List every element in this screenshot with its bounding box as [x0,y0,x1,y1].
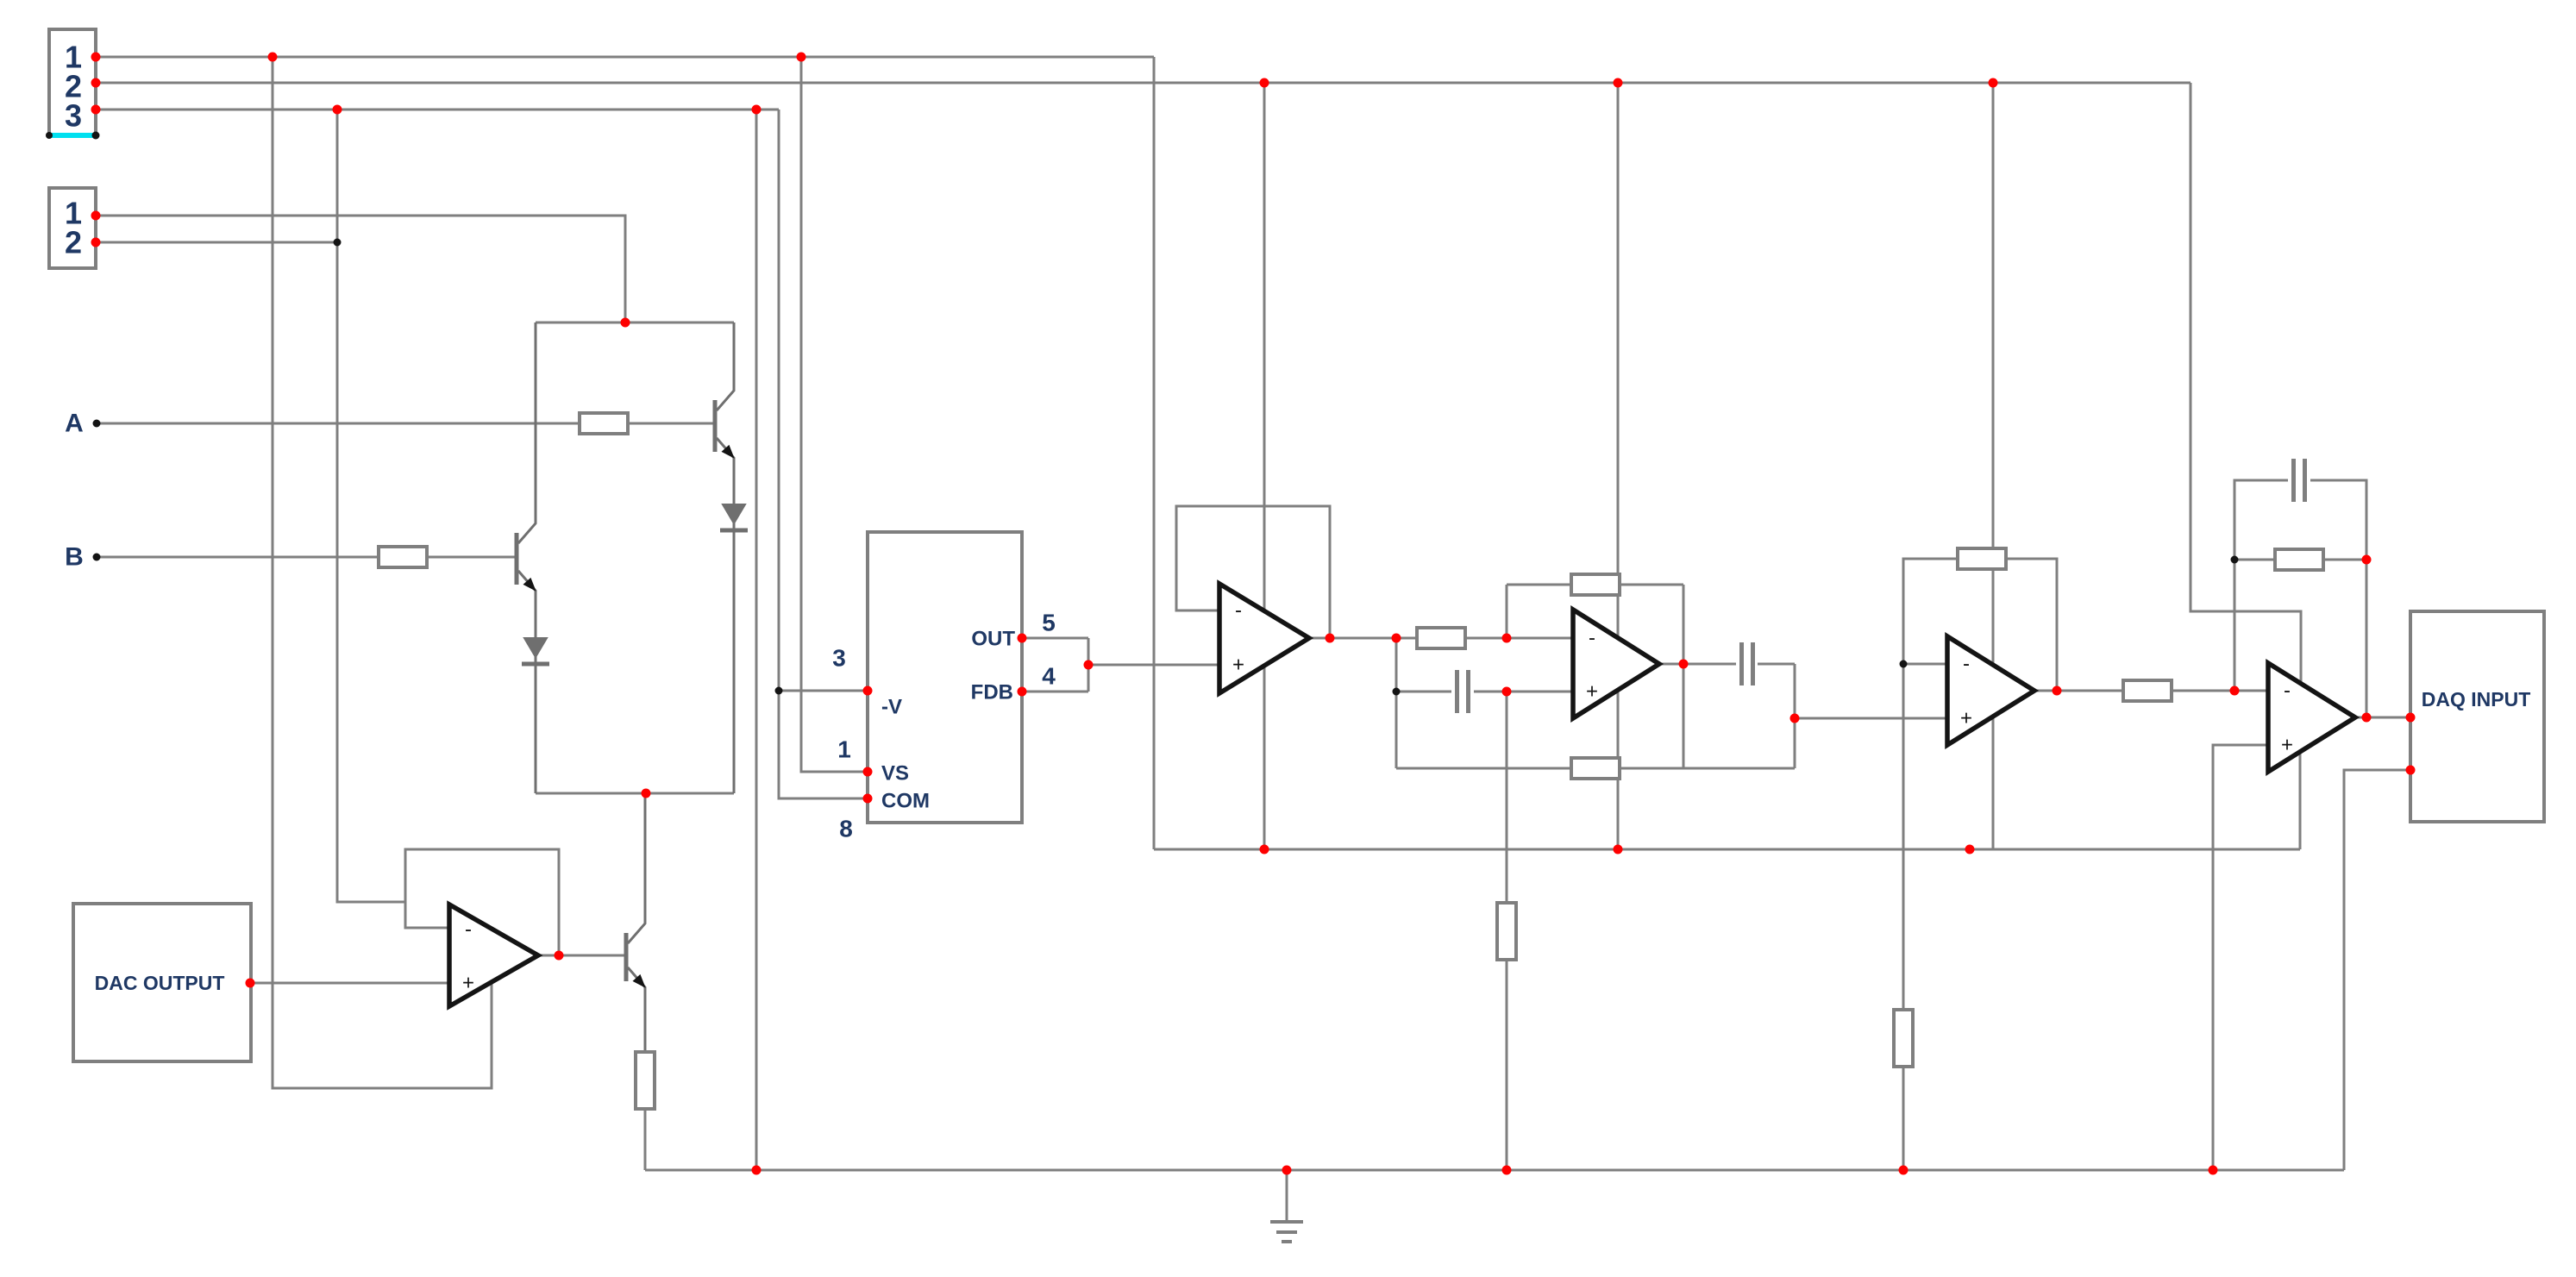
wire pin1 bus end x=1338 down to supply rail y=985 [1153,57,1156,849]
wire node A to resistor R1 [97,423,580,425]
transistor Q3 collector [628,793,645,943]
op-amp U1 voltage follower [1219,584,1309,693]
wire U4 output to DAQ INPUT [2355,717,2410,719]
svg-text:-V: -V [881,696,902,719]
junction IC pins [863,686,873,696]
wire capacitor C2 to riser x=2081 [1758,663,1795,666]
junction U3 inverting node black dot [1900,660,1908,668]
transistor Q1 collector [518,322,536,543]
wire U4 non-inverting input to ground rail [2213,745,2268,1170]
resistor R7 U4 input [2123,680,2172,701]
junction ground rail x=877 [752,1166,762,1175]
junction band-pass output node [1790,714,1800,723]
DAQ INPUT box [2410,611,2544,822]
wire U1 output to node [1309,637,1417,640]
wire U3 inverting input stub [1903,663,1947,666]
wire FDB pin to feedback bracket [1022,691,1088,693]
resistor R11 Q3 emitter [636,1052,655,1109]
junction U2 inverting node [1502,634,1512,643]
junction DAC output pin [246,979,255,988]
op-amp U3 gain stage [1947,636,2034,745]
wire diode D2 to cell bottom rail [733,520,736,793]
wire resistor R2 to Q1 base [427,556,515,559]
resistor R2 base of Q1 (B input) [379,547,427,567]
net highlight cyan segment under connector J1 [49,133,96,138]
resistor R8 U4 feedback [2275,549,2323,570]
wire transistor cell top rail [536,322,734,324]
wire pin2 bus junction x=2311 down to supply rail [1992,83,1995,849]
junction ground rail x=1747 [1502,1166,1512,1175]
junction U4 output [2362,713,2372,723]
wire U4 feedback down to output [2366,560,2368,717]
wire vertical from pin3 bus junction x=391 to U5 inverting input [337,110,405,902]
resistor R9 to ground from U2 non-inverting node [1497,903,1516,960]
junction pin2 bus x=1466 [1260,78,1269,88]
wire U3 output to input resistor R7 [2034,690,2123,692]
resistor R10 to ground from U3 inverting node [1894,1010,1913,1067]
wire resistor R11 to ground rail [644,1109,647,1170]
resistor R6 U3 feedback [1958,548,2006,569]
wire DAC OUTPUT to U5 non-inverting input [251,982,449,985]
wire U4 feedback node riser [2234,560,2236,691]
resistor R3 U2 input [1417,628,1465,648]
svg-text:-: - [2284,679,2291,703]
junction U3 output [2053,686,2062,696]
capacitor C2 U2 output [1739,642,1744,685]
junction U4 inverting node [2230,686,2240,696]
svg-text:COM: COM [881,790,930,813]
transistor Q2 collector [717,322,734,410]
junction pin2 bus x=1876 [1614,78,1623,88]
wire capacitor C1 to U2 non-inverting node [1474,691,1507,693]
svg-text:+: + [1232,654,1244,677]
svg-text:-: - [1963,653,1970,676]
wire conn1 pin1 horizontal bus y=66 [96,56,1154,59]
wire U3 inverting node down to resistor and ground rail [1902,664,1905,1170]
wire OUT pin to feedback bracket [1022,637,1088,640]
svg-text:DAC OUTPUT: DAC OUTPUT [95,972,225,994]
wire cap node to capacitor C1 [1396,691,1451,693]
connector J2 2-pin box [49,188,96,268]
junction dots connector J2 pins [91,211,101,221]
junction pin3 bus x=877 [752,105,762,115]
wire pin1 bus junction x=929 down to VS pin [801,57,868,772]
junction dots connector J1 pins [91,53,101,62]
resistor R4 U2 top feedback [1571,574,1620,595]
wire U1 inverting input feedback loop [1176,506,1330,638]
junction U5 output [555,951,564,961]
junction U2 output [1679,660,1689,669]
wire U2 bottom feedback row y=891 [1396,767,1795,770]
capacitor C1 U2 input [1455,670,1459,713]
wire resistor R1 to Q2 base [628,423,713,425]
junction pin1 bus x=929 [797,53,806,62]
wire U2 feedback right vertical x=1952 [1683,585,1685,768]
wire pin2 bus junction x=1466 down to supply rail [1263,83,1266,849]
junction pin2 bus x=2311 [1989,78,1998,88]
wire diode D1 to cell bottom rail [535,653,537,793]
svg-text:3: 3 [65,98,82,134]
svg-text:4: 4 [1042,663,1056,690]
junction U2 non-inverting node [1502,687,1512,697]
resistor R1 base of Q2 (A input) [580,413,628,434]
op-amp U2 band-pass filter stage [1573,610,1659,718]
connector J1 3-pin box [49,29,96,135]
node A terminal dot [93,420,101,428]
wire DAQ INPUT return pin to ground rail [2344,770,2410,1170]
junction supply rail x=1466 [1260,845,1269,854]
wire U3 feedback loop upper [1903,559,2057,691]
resistor R5 U2 bottom feedback [1571,758,1620,779]
wire feedback bracket vertical [1087,638,1090,692]
svg-text:1: 1 [837,736,851,763]
wire conn2 pin2 to node [96,241,337,244]
op-amp U4 output low-pass stage [2268,663,2355,772]
wire U5 inverting input feedback loop [405,849,559,955]
wire supply rail end up to U4 underside [2299,752,2302,849]
transistor Q2 base bar [713,400,718,452]
transistor Q2 emitter [717,438,734,504]
wire conn1 pin3 horizontal bus y=127 [96,109,779,111]
ground symbol [1286,1170,1288,1222]
wire U2 non-inverting node down to resistor and ground rail [1506,692,1508,1170]
wire U2 top feedback riser x=1747 [1506,585,1508,638]
wire cap node down to bottom feedback row [1395,692,1398,768]
wire U4 feedback resistor left lead [2234,559,2275,561]
svg-text:+: + [462,972,474,995]
svg-text:5: 5 [1042,610,1056,636]
junction U2 input node [1392,634,1401,643]
wire conn2 pin1 to transistor cell [96,216,625,322]
wire riser x=2081 down to bottom feedback row [1794,664,1796,768]
svg-text:-: - [465,918,472,942]
wire U2 non-inverting node to input [1507,691,1573,693]
svg-text:VS: VS [881,762,909,786]
wire U2 output to capacitor C2 [1659,663,1736,666]
transistor Q3 emitter [628,967,645,1052]
junction cell top rail [621,318,630,328]
svg-text:FDB: FDB [971,681,1013,704]
svg-text:3: 3 [832,645,846,672]
op-amp U5 DAC buffer [449,905,538,1006]
junction ground rail x=2566 [2209,1166,2218,1175]
junction conn2 pin2 black dot [334,239,342,247]
transistor Q1 emitter [518,571,536,638]
svg-text:DAQ INPUT: DAQ INPUT [2422,688,2531,710]
wire ground rail y=1357 [645,1169,2344,1172]
svg-text:+: + [2281,734,2293,757]
wire conn1 pin2 horizontal bus y=96 [96,82,2191,85]
wire supply rail y=985 [1154,848,2300,851]
wire vertical pin3 bus x=877 down to ground rail [755,110,758,1170]
wire U4 feedback resistor right lead [2323,559,2366,561]
junction supply rail x=1876 [1614,845,1623,854]
wire pin3 bus turn-down x=903 to -V and COM pins [779,110,868,798]
svg-text:8: 8 [839,816,853,842]
svg-text:-: - [1235,599,1242,623]
diode D1 [524,638,547,657]
DAC OUTPUT box [73,904,251,1061]
wire bracket node to U1 non-inverting input [1088,664,1219,667]
transistor Q1 base bar [515,533,519,585]
wire vertical from pin1 bus junction x=316 down to op-amp U5 supply return [273,57,492,1088]
junction -V black dot [775,687,783,695]
junction DAQ input pins [2406,713,2416,723]
junction U4 feedback node [2362,555,2372,565]
svg-text:OUT: OUT [971,628,1015,651]
junction ground rail ground symbol [1282,1166,1292,1175]
wire U2 top feedback row y=678 [1507,584,1683,586]
wire U2 input resistor to inverting input [1465,637,1573,640]
wire pin2 bus end x=2540 down to U4 top [2191,83,2301,685]
svg-text:2: 2 [65,225,82,260]
junction U2 cap node black dot [1393,688,1401,696]
diode D2 [723,504,745,523]
svg-text:-: - [1589,627,1595,650]
wire transistor cell bottom rail [536,792,734,795]
junction bracket node [1084,660,1094,670]
wire resistor R7 to U4 inverting input [2172,690,2268,692]
svg-text:+: + [1960,707,1972,730]
junction U1 output [1326,634,1335,643]
wire U4 feedback cap branch left [2234,480,2288,560]
wire U5 output to Q3 base [538,955,624,957]
wire U2 node vertical to cap node [1395,638,1398,692]
svg-text:+: + [1586,680,1598,704]
wire -V pin to ground vertical [779,690,868,692]
junction supply rail x=2284 [1965,845,1975,854]
junction U4 feedback node black dot [2231,556,2239,564]
wire U4 feedback cap branch right [2310,480,2366,560]
svg-text:A: A [65,410,84,438]
wire band-pass output node to U3 non-inverting input [1795,717,1947,720]
transistor Q3 base bar [624,933,629,981]
wire pin2 bus junction x=1876 down to supply rail [1617,83,1620,849]
svg-text:B: B [65,543,84,572]
junction cell bottom rail [642,789,651,798]
IC U6 thermocouple amplifier box [868,532,1022,823]
wire node B to resistor R2 [97,556,379,559]
node B terminal dot [93,554,101,561]
junction ground rail x=2207 [1899,1166,1908,1175]
junction pin3 bus x=391 [333,105,342,115]
junction pin1 bus x=316 [268,53,278,62]
capacitor C3 U4 feedback [2291,459,2296,502]
